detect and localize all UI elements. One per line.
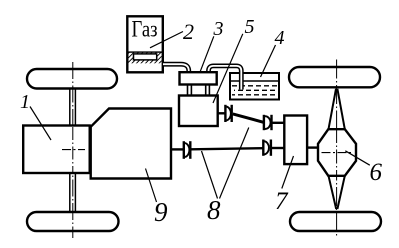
wheel rear-left (bottom) [27, 212, 119, 231]
gas cylinder hatched band [129, 53, 162, 64]
gas cylinder inner valve rect [134, 54, 157, 60]
leader line 8a [202, 151, 218, 199]
lower half-axle cone [329, 176, 345, 209]
leader line 3 [200, 36, 214, 71]
upper drive shaft stub from mixer [218, 112, 225, 114]
tank 4 liquid surface [230, 80, 279, 82]
leader line 8b [220, 128, 249, 199]
shaft C2 to box7 [273, 122, 286, 124]
box 9 (engine body, chamfered) [91, 109, 171, 179]
tank 4 liquid dashes [232, 86, 277, 95]
pipe reducer to tank 4 [209, 66, 242, 90]
gas cylinder separator line [127, 51, 163, 53]
leader line 4 [261, 45, 276, 77]
coupling C2 [264, 115, 272, 130]
center line through box 1 [72, 127, 74, 172]
lower drive shaft from box9 [171, 148, 184, 150]
svg-text:6: 6 [370, 159, 383, 186]
svg-text:1: 1 [20, 91, 30, 113]
coupling C4 [263, 140, 271, 156]
leader line 2 [150, 32, 183, 48]
gas cylinder 2 [127, 16, 163, 72]
box 1 (front axle housing) [23, 126, 90, 174]
gearbox 7 [284, 116, 307, 165]
svg-text:4: 4 [275, 27, 285, 49]
leader line 5 [213, 34, 243, 103]
long lower shaft to C4 [191, 148, 264, 149]
rear axle center line (right, dash-dot) [336, 60, 338, 238]
svg-text:Газ: Газ [132, 17, 158, 42]
leader line 7 [282, 156, 294, 189]
reducer legs [188, 85, 210, 96]
svg-text:2: 2 [183, 19, 194, 44]
svg-text:5: 5 [245, 16, 255, 38]
front axle center line (left, dash-dot) [72, 62, 74, 238]
upper half-axle cone [329, 89, 345, 129]
tank 4 body [230, 73, 279, 100]
mixer 5 (box under reducer) [179, 96, 218, 127]
wheel rear-right (bottom) [290, 212, 381, 231]
leader line 1 [30, 107, 51, 141]
box1 horizontal center mark [62, 149, 85, 151]
svg-text:9: 9 [154, 197, 168, 227]
shaft box7 to differential [307, 146, 319, 148]
svg-text:3: 3 [213, 18, 224, 40]
differential 6 (octagon) [318, 129, 356, 176]
pipe gas cylinder to reducer [163, 64, 189, 73]
front axle tube lower segment [70, 173, 76, 213]
wheel front-left (top) [27, 69, 117, 89]
leader line 9 [146, 169, 157, 203]
reducer 3 cap [180, 72, 217, 84]
svg-text:8: 8 [207, 195, 221, 225]
wheel front-right (top) [289, 67, 380, 87]
shaft C4 to box7 [272, 147, 285, 149]
differential horizontal center mark [322, 152, 353, 154]
front axle tube upper segment [70, 88, 76, 126]
coupling C3 [184, 141, 191, 159]
diagonal propeller shaft [233, 114, 264, 122]
redraw rear center line through octagon [336, 129, 338, 176]
coupling C1 [225, 105, 231, 122]
svg-text:7: 7 [275, 188, 289, 215]
leader line 6 [345, 151, 370, 165]
